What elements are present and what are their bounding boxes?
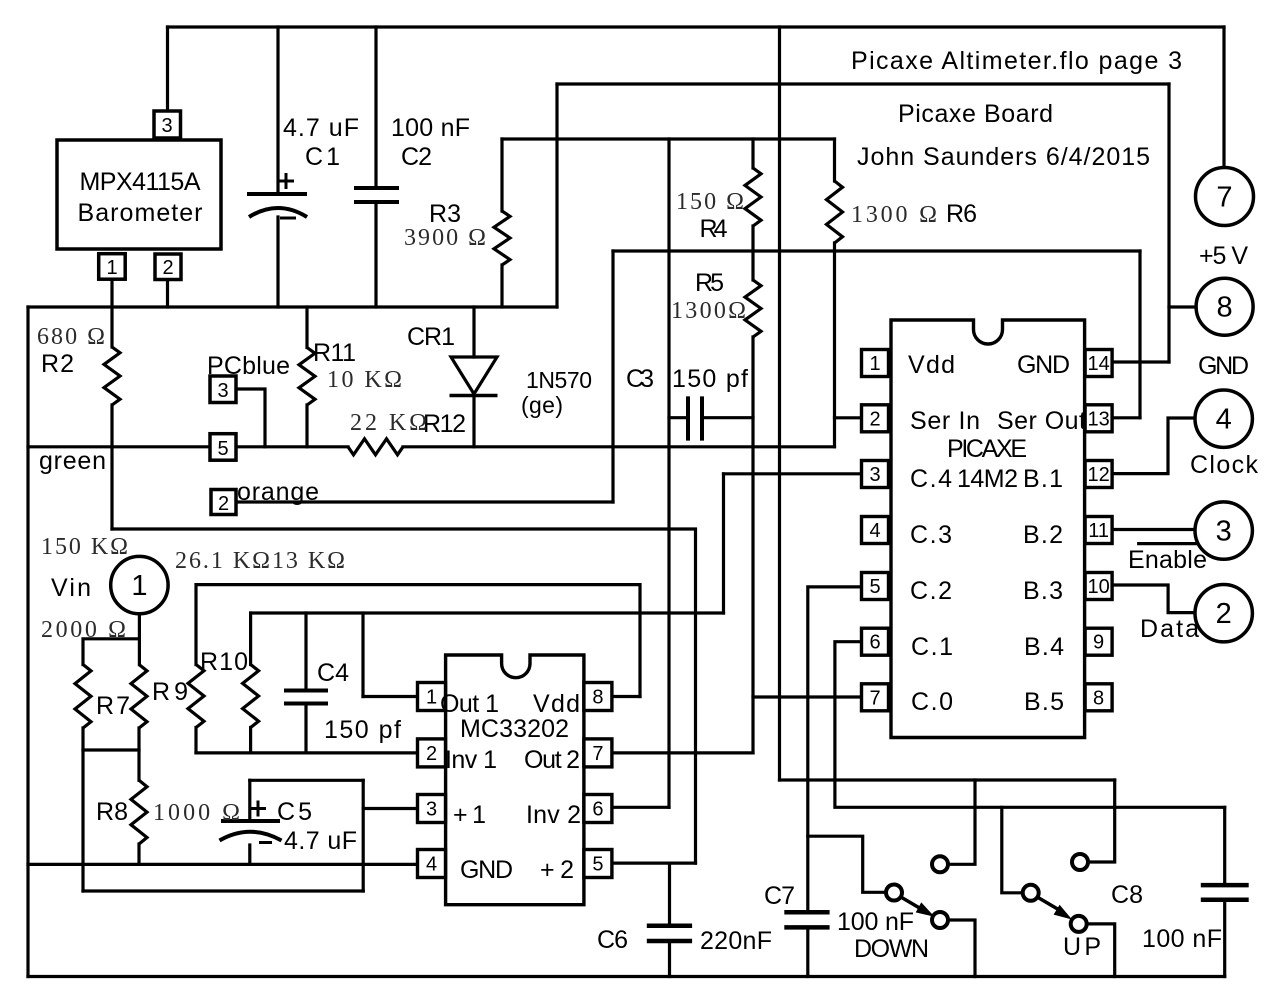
svg-text:C5: C5 [277,798,312,826]
wire C5 loop bottom [83,889,363,892]
capacitor C8 plates [1201,885,1249,900]
wire R9 to R8 [137,728,140,780]
MPX pin 1 box [99,254,126,280]
svg-text:6: 6 [592,799,603,821]
svg-text:1: 1 [106,257,117,279]
svg-text:150 pf: 150 pf [672,365,748,393]
switch DOWN +5V contact [932,856,948,872]
wire C5 loop top [250,779,363,782]
svg-text:Enable: Enable [1128,546,1207,574]
svg-text:Vin: Vin [51,574,91,602]
wire C2 bottom lead [374,202,377,307]
wire orange riser [611,251,614,502]
svg-text:220nF: 220nF [700,927,772,955]
wire CR1 bottom lead [472,395,475,447]
svg-text:3: 3 [869,464,880,486]
svg-text:C7: C7 [764,882,795,910]
wire PICAXE pin10 to connector 2 [1113,585,1195,613]
svg-text:3: 3 [217,380,228,402]
svg-text:B.4: B.4 [1024,633,1064,661]
svg-text:Out 1: Out 1 [440,690,499,718]
wire R8 bottom lead [137,844,140,864]
capacitor C1 plus sign [279,173,294,189]
svg-text:orange: orange [237,478,319,506]
svg-text:PCblue: PCblue [207,352,290,380]
switch DOWN pole contact [886,885,902,901]
svg-text:1N570: 1N570 [526,367,592,393]
wire C3 left lead [669,416,688,419]
wire Ser Out row y251 [613,249,1140,252]
wire MPX pin3 to rail [166,27,169,111]
svg-text:5: 5 [592,854,603,876]
PICAXE pin 6 box [862,628,889,655]
svg-text:8: 8 [1093,687,1104,709]
wire DOWN pole [808,836,885,892]
svg-text:B.2: B.2 [1023,521,1063,549]
wire C6 bottom lead [668,943,671,976]
wire R7 bottom lead [81,728,84,891]
wire GND rail left [28,305,557,308]
wire +5V vertical bus [778,27,781,780]
svg-text:R12: R12 [423,410,466,438]
switch DOWN arm [900,897,921,909]
svg-text:green: green [39,447,106,475]
wire GND horizontal bus [557,82,1169,85]
PICAXE pin 14 box [1085,350,1112,377]
svg-text:PICAXE: PICAXE [947,435,1027,463]
wire opamp pin8 [612,695,640,698]
svg-text:8: 8 [1217,292,1233,324]
capacitor C1 arc [249,208,307,217]
svg-text:R5: R5 [695,269,724,297]
capacitor C7 plates [784,912,829,927]
wire C5 bottom lead [248,845,251,864]
svg-text:8: 8 [592,687,603,709]
wire C1 top lead [276,27,279,194]
wire C5 top lead [248,780,251,819]
wire R9 top lead [138,639,141,665]
svg-text:5: 5 [869,576,880,598]
svg-text:Inv 2: Inv 2 [526,801,581,829]
svg-text:6: 6 [869,632,880,654]
svg-text:3: 3 [426,799,437,821]
capacitor C5 minus tick [259,841,272,844]
svg-text:C3: C3 [626,365,654,393]
svg-text:Barometer: Barometer [78,199,203,227]
svg-text:John Saunders 6/4/2015: John Saunders 6/4/2015 [857,143,1150,171]
svg-text:Clock: Clock [1190,451,1259,479]
PICAXE pin 8 box [1085,684,1112,711]
wire R5 leads [751,251,754,280]
wire PICAXE pin7 C.0 [753,695,862,698]
svg-text:2: 2 [162,257,173,279]
wire R7 R9 jumper [83,748,139,751]
svg-text:11: 11 [1088,520,1109,542]
svg-text:B.5: B.5 [1024,688,1064,716]
capacitor C5 arc [220,832,282,841]
wire green bus [28,445,348,448]
svg-text:9: 9 [1093,632,1104,654]
svg-text:C2: C2 [401,143,432,171]
PICAXE pin 13 box [1085,405,1112,432]
svg-text:10 KΩ: 10 KΩ [327,367,402,393]
svg-text:22 KΩ: 22 KΩ [350,410,427,436]
wire DOWN +5V contact branch [949,780,975,864]
wire C.4 net y613 [251,611,724,614]
resistor R6 [827,181,843,243]
svg-text:C.0: C.0 [911,688,953,716]
wire left border [26,307,29,977]
connector circle 4 [1195,390,1252,447]
svg-text:2: 2 [426,743,437,765]
resistor R8 [131,780,147,844]
svg-text:4: 4 [426,854,437,876]
wire orange [236,500,613,503]
wire opamp pin6 Inv2 [612,806,669,809]
wire opamp pin5 [612,861,696,864]
wire connector1 lead [83,614,139,665]
svg-text:1: 1 [869,353,880,375]
svg-text:Picaxe Altimeter.flo page 3: Picaxe Altimeter.flo page 3 [851,47,1182,75]
PICAXE pin 12 box [1085,461,1112,488]
svg-text:7: 7 [869,687,880,709]
svg-text:2: 2 [218,493,229,515]
svg-text:C1: C1 [305,143,340,171]
wire x669 net [667,139,670,807]
wire branch to connector 8 [1169,305,1197,308]
wire PICAXE pin12 to connector 4 [1113,418,1195,474]
op-amp pin 3 box [418,795,446,823]
wire +5V top rail [168,25,1225,28]
svg-text:Data: Data [1140,615,1199,643]
wire Out1 riser [361,613,364,697]
svg-text:C.3: C.3 [910,521,952,549]
wire PICAXE pin5 to C7 [808,587,862,910]
svg-text:C.2: C.2 [910,577,952,605]
svg-text:Vdd: Vdd [908,351,955,379]
wire C5 loop right [362,780,365,891]
diode CR1 cathode bar [450,394,498,398]
wire PICAXE pin3 riser [722,474,725,613]
svg-text:3: 3 [161,115,172,137]
svg-text:Vdd: Vdd [533,690,580,718]
svg-text:1: 1 [426,687,437,709]
svg-text:3: 3 [1216,516,1232,548]
PICAXE pin 3 box [862,461,889,488]
switch DOWN [886,856,948,928]
wire C2 top lead [374,27,377,188]
switch DOWN output contact [932,912,948,928]
MPX4115A barometer box [57,140,221,249]
svg-text:GND: GND [1017,351,1070,379]
resistor R9 [131,665,147,729]
wire C7 bottom lead [806,930,809,977]
svg-text:R6: R6 [946,200,977,228]
svg-text:Out 2: Out 2 [524,746,580,774]
wire UP output contact [1088,924,1115,977]
MPX pin 2 box [155,254,181,280]
PICAXE pin 9 box [1085,628,1112,655]
resistor R11 [299,348,315,406]
wire MPX pin2 lead [166,279,169,307]
wire R11 leads [305,307,308,348]
PICAXE pin 10 box [1085,573,1112,600]
svg-text:150 Ω: 150 Ω [676,189,744,215]
wire PICAXE pin14 [1113,360,1169,363]
svg-text:Ser Out: Ser Out [997,407,1086,435]
svg-text:2: 2 [1216,598,1232,630]
op-amp pin 6 box [584,795,612,823]
capacitor C1 plate [247,192,307,196]
wire C1 bottom lead [276,217,279,307]
connector circle 8 [1196,278,1253,335]
svg-text:B.3: B.3 [1023,577,1063,605]
svg-text:680 Ω: 680 Ω [37,324,105,350]
resistor R4 [745,168,761,226]
PICAXE pin 1 box [862,350,889,377]
svg-text:C.1: C.1 [911,633,953,661]
svg-text:C6: C6 [597,926,628,954]
wire R4 leads [751,139,754,168]
wire R2 leads [110,307,113,347]
svg-text:12: 12 [1087,464,1109,486]
op-amp pin 1 box [418,683,446,711]
wire R2 bottom run y529 [112,529,696,863]
svg-text:R10: R10 [200,648,248,676]
wire R6 leads [833,139,836,181]
resistor 13K [243,665,259,728]
wire PICAXE pin3 [724,472,863,475]
connector circle 3 [1195,502,1252,559]
switch UP arm [1037,897,1058,909]
switch UP output contact [1071,916,1087,932]
svg-text:100 nF: 100 nF [391,114,470,142]
wire GND left drop [555,84,558,307]
wire C8 top lead [1223,807,1226,883]
wire opamp pin7 Out2 [612,751,753,754]
diode CR1 [451,357,497,394]
wire C8 bottom lead [1223,902,1226,977]
svg-text:R9: R9 [152,678,188,706]
wire PICAXE pin2 [835,416,863,419]
PC connector box 3 [210,376,236,403]
capacitor C2 plates [354,188,399,202]
svg-text:CR1: CR1 [407,323,455,351]
svg-text:5: 5 [217,438,228,460]
svg-text:R8: R8 [96,798,128,826]
svg-text:(ge): (ge) [521,392,563,418]
capacitor C6 plates [647,926,692,941]
wire bottom border [28,975,1225,978]
svg-text:1: 1 [131,570,147,602]
svg-text:+ 1: + 1 [453,801,486,829]
PC connector box 2 [211,490,236,515]
wire R13k top lead [249,613,252,665]
wire pin13 riser [1138,251,1141,418]
connector circle 7 [1196,168,1254,226]
svg-text:R7: R7 [96,692,130,720]
svg-text:R2: R2 [41,350,74,378]
op-amp pin 7 box [584,739,612,767]
resistor R3 [494,211,510,265]
capacitor C1 minus tick [280,217,296,220]
svg-text:14: 14 [1087,353,1109,375]
svg-text:R4: R4 [700,215,728,243]
svg-text:MC33202: MC33202 [460,715,569,743]
svg-text:GND: GND [460,856,513,884]
wire R3 leads [500,139,503,211]
svg-text:4.7 uF: 4.7 uF [284,827,357,855]
svg-text:C8: C8 [1111,881,1143,909]
connector circle 1 [111,556,168,613]
resistor R10 [188,665,204,728]
svg-text:2: 2 [869,408,880,430]
switch UP [1023,854,1088,932]
svg-text:150 KΩ: 150 KΩ [41,534,128,560]
op-amp pin 8 box [584,683,612,711]
svg-text:+ 2: + 2 [540,856,574,884]
capacitor C4 plates [284,691,328,704]
wire stray enable segment [1139,542,1197,545]
wire opamp pin1 [363,695,418,698]
svg-text:GND: GND [1198,352,1249,380]
PICAXE pin 7 box [862,684,889,711]
wire MPX pin1 lead [110,279,113,307]
capacitor C3 plates [688,396,702,440]
wire opamp pin3 [363,807,417,810]
PICAXE pin 4 box [862,517,889,544]
resistor R7 [75,665,91,729]
svg-text:26.1 KΩ13 KΩ: 26.1 KΩ13 KΩ [175,548,345,574]
wire UP pole [1002,807,1022,893]
switch UP pole contact [1023,885,1039,901]
svg-text:4: 4 [1216,404,1232,436]
svg-text:R3: R3 [429,200,461,228]
PICAXE pin 2 box [862,405,889,432]
op-amp U2 MC33202 body [446,655,584,905]
wire CR1 top lead [472,307,475,357]
svg-text:B.1: B.1 [1023,465,1063,493]
op-amp pin 4 box [418,850,446,878]
wire PICAXE pin13 [1113,416,1140,419]
wire rail to connector 7 [1222,27,1225,167]
wire +5V to switches [780,778,1115,781]
wire PICAXE pin6 to C.1 run [835,642,1225,808]
svg-text:13: 13 [1087,408,1109,430]
wire box3 stub [236,389,265,447]
svg-text:+5 V: +5 V [1199,242,1248,270]
svg-text:Picaxe Board: Picaxe Board [898,100,1053,128]
resistor R12 [348,439,403,455]
wire C4 bottom lead [304,705,307,753]
wire Inv1 run y753 [196,751,418,754]
resistor R5 [745,280,761,337]
svg-text:Ser In: Ser In [910,407,980,435]
PICAXE pin 5 box [862,573,889,600]
connector circle 2 [1195,585,1252,642]
wire C3 right lead [702,416,753,419]
PICAXE pin 11 box [1085,517,1112,544]
capacitor C5 plus sign [251,801,266,817]
svg-text:14M2: 14M2 [957,465,1018,493]
switch UP +5V contact [1072,854,1088,870]
wire R10 bottom lead [194,728,197,753]
wire GND opamp pin4 run [28,863,418,866]
svg-text:4: 4 [869,520,880,542]
svg-text:150 pf: 150 pf [324,716,401,744]
svg-text:4.7 uF: 4.7 uF [283,114,359,142]
svg-text:7: 7 [592,743,603,765]
IC U1 PICAXE body [891,320,1085,738]
svg-text:10: 10 [1087,576,1109,598]
resistor R2 [104,347,120,405]
svg-text:1300Ω: 1300Ω [671,298,746,324]
svg-text:C.4: C.4 [910,465,952,493]
op-amp pin 5 box [584,850,612,878]
op-amp pin 2 box [418,739,446,767]
wire UP +5V contact branch [1089,780,1115,862]
svg-text:100 nF: 100 nF [837,908,914,936]
wire DOWN output contact [949,920,975,977]
MPX pin 3 box [154,111,181,138]
svg-text:7: 7 [1216,182,1232,214]
wire R10 top run [196,585,640,697]
wire PICAXE pin11 to connector 3 [1113,528,1195,531]
svg-text:MPX4115A: MPX4115A [80,168,201,196]
wire R13k bottom lead [249,728,252,753]
PC connector box 5 [210,434,236,461]
svg-text:DOWN: DOWN [854,935,929,963]
svg-text:C4: C4 [317,659,349,687]
wire C4 top lead [304,613,307,689]
svg-text:100 nF: 100 nF [1142,925,1222,953]
svg-text:R11: R11 [313,339,356,367]
wire Vdd row y139 [502,137,835,140]
wire C6 top lead [668,863,671,924]
capacitor C5 plate [221,819,280,823]
wire GND right drop to pin14 [1167,84,1170,362]
svg-text:Inv 1: Inv 1 [445,746,497,774]
